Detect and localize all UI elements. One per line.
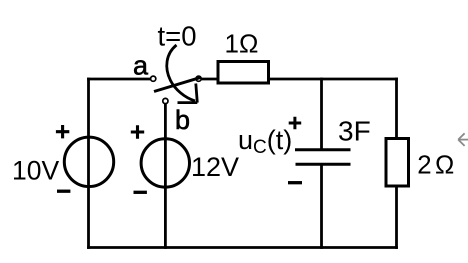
switch terminal a node <box>151 76 156 81</box>
svg-text:uC(t): uC(t) <box>238 125 292 158</box>
voltage source V2 12V circle <box>141 139 189 187</box>
wire capacitor branch upper <box>320 78 323 150</box>
svg-text:10V: 10V <box>12 155 59 185</box>
svg-text:2Ω: 2Ω <box>417 152 454 180</box>
wire switch pole to resistor R1 <box>201 78 217 81</box>
gray cursor arrow <box>458 133 468 146</box>
voltage source V1 10V circle <box>64 137 113 186</box>
capacitor plus sign <box>289 117 302 130</box>
wire capacitor branch lower <box>320 165 323 249</box>
resistor R1 1ohm body <box>218 62 269 84</box>
V2 plus sign <box>131 125 144 138</box>
resistor R2 2ohm body <box>386 139 409 187</box>
switch terminal b node <box>163 98 168 103</box>
switch pole node <box>196 76 201 81</box>
switch motion arrow t=0 <box>167 45 198 103</box>
switch arm <box>154 77 201 91</box>
svg-text:t=0: t=0 <box>158 21 197 52</box>
capacitor C 3F bottom plate <box>296 163 351 166</box>
wire switch b branch vertical through 12V source <box>164 104 167 249</box>
V1 minus sign <box>57 190 70 193</box>
capacitor minus sign <box>288 181 302 184</box>
wire resistor R1 to top-right corner <box>270 78 398 81</box>
svg-text:a: a <box>133 51 149 81</box>
wire right vertical lower <box>395 187 398 249</box>
V2 minus sign <box>134 191 147 194</box>
svg-text:1Ω: 1Ω <box>225 29 259 59</box>
capacitor C 3F top plate <box>295 148 351 151</box>
wire left vertical <box>87 78 90 249</box>
wire right vertical upper <box>395 78 398 139</box>
wire bottom horizontal <box>87 246 398 249</box>
wire top-left horizontal to switch terminal a <box>87 78 151 81</box>
svg-text:b: b <box>175 105 190 135</box>
svg-text:12V: 12V <box>191 152 239 182</box>
svg-text:3F: 3F <box>338 116 371 147</box>
V1 plus sign <box>56 125 69 138</box>
